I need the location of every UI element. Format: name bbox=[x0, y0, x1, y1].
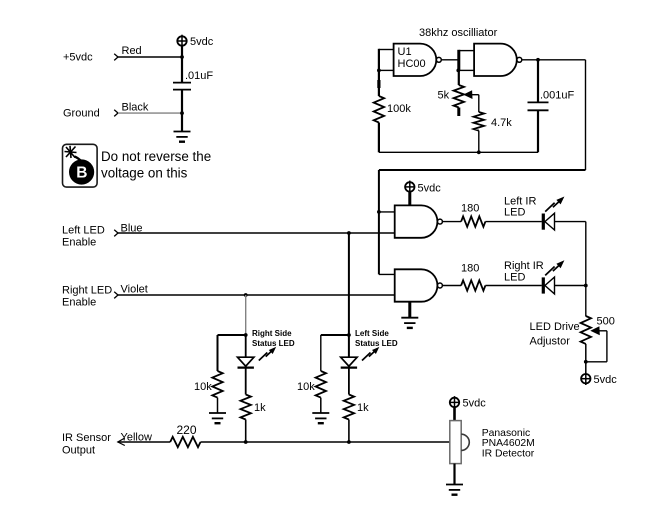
wire Black ground input bbox=[118, 112, 182, 114]
wire oscillator bottom rail bbox=[379, 151, 538, 153]
resistor R3 4.7k bbox=[474, 112, 484, 131]
wire output line to detector bbox=[201, 441, 451, 443]
wire right status branch vertical bbox=[245, 295, 247, 335]
wire U1B top input bbox=[459, 50, 474, 52]
svg-text:38khz oscilliator: 38khz oscilliator bbox=[419, 27, 498, 39]
junction R8/output bbox=[347, 440, 351, 444]
svg-text:B: B bbox=[76, 165, 87, 182]
diode D3 Left Side Status LED bbox=[341, 357, 357, 367]
svg-text:LED Drive: LED Drive bbox=[530, 321, 580, 333]
wire R7 to ground bbox=[320, 398, 322, 413]
capacitor C1 bbox=[173, 83, 191, 90]
svg-text:1k: 1k bbox=[357, 402, 369, 414]
ground GND5 bbox=[446, 485, 463, 495]
diode D4 Right Side Status LED bbox=[238, 357, 254, 367]
ic U2 PNA4602M body bbox=[450, 421, 469, 464]
warning icon bomb bbox=[63, 144, 98, 187]
resistor R8 1k bbox=[344, 395, 354, 420]
wire gate feed vertical bbox=[378, 170, 380, 274]
diode D1 Left IR LED bbox=[543, 213, 554, 230]
svg-text:Ground: Ground bbox=[63, 108, 100, 120]
svg-text:10k: 10k bbox=[194, 381, 212, 393]
svg-text:Blue: Blue bbox=[121, 222, 143, 234]
resistor R4 180 bbox=[461, 216, 485, 226]
wire C2 top lead bbox=[537, 60, 539, 103]
junction left branch/R7 tap bbox=[347, 333, 351, 337]
svg-text:IR Sensor: IR Sensor bbox=[62, 432, 111, 444]
svg-text:PNA4602M: PNA4602M bbox=[482, 438, 535, 449]
wire left branch to R7 bbox=[321, 334, 349, 336]
wire U1B inputs to R2 pot bbox=[458, 70, 460, 85]
svg-text:Left IR: Left IR bbox=[504, 195, 536, 207]
wire P1 to junction to C1 bbox=[181, 46, 183, 83]
svg-text:100k: 100k bbox=[387, 103, 411, 115]
wire R6 wiper loop bbox=[586, 331, 607, 362]
node Ground input port bbox=[114, 110, 118, 117]
svg-text:LED: LED bbox=[504, 207, 525, 219]
node Left LED Enable port bbox=[114, 230, 118, 237]
emission arrows D4 bbox=[259, 347, 276, 361]
junction right branch/R9 tap bbox=[244, 333, 248, 337]
svg-text:Adjustor: Adjustor bbox=[530, 336, 571, 348]
wire U1A top input bbox=[379, 49, 394, 51]
ground GND2 bbox=[401, 318, 418, 328]
svg-text:.001uF: .001uF bbox=[540, 90, 575, 102]
wire D1 to right rail bbox=[555, 221, 586, 223]
wire D3 to R8 bbox=[348, 368, 350, 395]
wire thick lead above R1 bbox=[377, 80, 380, 88]
wire U1D ground lead bbox=[408, 302, 411, 318]
junction feed/U1C bbox=[377, 210, 381, 214]
wire U1C output to R4 bbox=[442, 221, 461, 223]
capacitor C2 bbox=[528, 102, 549, 110]
svg-text:5k: 5k bbox=[438, 90, 450, 102]
wire R2 unconnected stub bbox=[457, 108, 460, 117]
svg-text:+5vdc: +5vdc bbox=[63, 52, 93, 64]
potentiometer R6 500 bbox=[581, 316, 591, 344]
node IR Sensor Output port bbox=[118, 438, 125, 446]
wire Violet enable line bbox=[118, 294, 395, 296]
resistor R7 10k bbox=[316, 371, 326, 398]
ground GND1 bbox=[174, 132, 191, 142]
emission arrows D1 bbox=[545, 197, 564, 212]
junction Blue/left status branch bbox=[347, 231, 351, 235]
svg-text:1k: 1k bbox=[254, 402, 266, 414]
power symbol 5vdc P3 bbox=[581, 372, 590, 385]
resistor R11 220 bbox=[170, 437, 200, 447]
svg-text:IR Detector: IR Detector bbox=[482, 449, 535, 460]
wire R9 to ground bbox=[217, 398, 219, 413]
junction U1B output/C2 bbox=[536, 58, 540, 62]
wire U1D output to R5 bbox=[442, 285, 461, 287]
wire R8 to output line bbox=[348, 420, 350, 443]
svg-text:Status LED: Status LED bbox=[355, 339, 398, 348]
svg-text:5vdc: 5vdc bbox=[418, 182, 442, 194]
wire R9 top lead bbox=[217, 335, 219, 371]
wire R10 to output line bbox=[245, 420, 247, 443]
wire oscillator output to gates bbox=[379, 169, 586, 171]
wire C2 bottom lead bbox=[537, 110, 539, 152]
svg-text:500: 500 bbox=[597, 316, 615, 328]
svg-text:Violet: Violet bbox=[121, 283, 148, 295]
wire R5 to D2 bbox=[485, 285, 541, 287]
svg-text:HC00: HC00 bbox=[398, 58, 426, 70]
junction D2/right rail bbox=[584, 284, 588, 288]
wire U1A input tie vertical bbox=[378, 49, 380, 96]
svg-text:180: 180 bbox=[461, 263, 479, 275]
emission arrows D3 bbox=[362, 347, 379, 361]
resistor R5 180 bbox=[461, 280, 485, 290]
wire Blue enable line bbox=[118, 232, 395, 234]
junction Violet/right status branch bbox=[244, 293, 248, 297]
svg-text:voltage on this: voltage on this bbox=[101, 165, 188, 180]
wire right branch lower vertical bbox=[245, 335, 247, 357]
op-gate U1A NAND HC00 bbox=[394, 44, 437, 76]
wire U1A output to U1B bbox=[441, 59, 459, 61]
svg-text:5vdc: 5vdc bbox=[463, 397, 487, 409]
wire D4 to R10 bbox=[245, 368, 247, 395]
wire Red +5vdc to C1 top bbox=[118, 56, 182, 58]
svg-text:Output: Output bbox=[62, 445, 95, 457]
svg-text:LED: LED bbox=[504, 271, 525, 283]
svg-text:5vdc: 5vdc bbox=[190, 36, 214, 48]
node +5vdc input port bbox=[114, 54, 118, 61]
junction R3/rail bbox=[477, 150, 481, 154]
resistor R10 1k bbox=[241, 395, 251, 420]
ground GND4 bbox=[209, 413, 226, 423]
wire oscillator output right rail bbox=[585, 60, 587, 170]
wire R3 bottom to rail bbox=[478, 131, 480, 153]
wire D2 to right rail bbox=[555, 285, 586, 287]
power symbol 5vdc P1 bbox=[177, 35, 186, 48]
wire R6 bottom to P3 bbox=[585, 344, 587, 374]
wire R1 bottom to rail bbox=[378, 123, 380, 153]
emission arrows D2 bbox=[545, 260, 564, 275]
resistor R1 100k bbox=[374, 96, 384, 123]
wire C1 bottom to ground bbox=[181, 90, 183, 131]
svg-text:Right LED: Right LED bbox=[62, 285, 112, 297]
svg-text:Right Side: Right Side bbox=[252, 329, 292, 338]
diode D2 Right IR LED bbox=[543, 277, 554, 294]
op-gate U1C NAND bbox=[395, 205, 438, 237]
wire left status branch vertical bbox=[348, 233, 350, 357]
svg-text:5vdc: 5vdc bbox=[594, 374, 618, 386]
svg-text:Enable: Enable bbox=[62, 237, 96, 249]
svg-text:Left Side: Left Side bbox=[355, 329, 389, 338]
wire U1B output bbox=[522, 59, 586, 61]
wire U1B input tie bar bbox=[457, 50, 460, 71]
svg-text:10k: 10k bbox=[297, 381, 315, 393]
svg-text:U1: U1 bbox=[398, 46, 412, 58]
svg-text:Red: Red bbox=[122, 45, 142, 57]
wire U1C top input bbox=[379, 211, 395, 213]
junction U1B inputs/R2 bbox=[456, 69, 460, 73]
svg-text:.01uF: .01uF bbox=[185, 70, 213, 82]
svg-text:180: 180 bbox=[461, 203, 479, 215]
op-gate U1D NAND bbox=[395, 269, 438, 301]
junction R6 wiper/bottom bbox=[584, 360, 588, 364]
svg-text:Left LED: Left LED bbox=[62, 224, 105, 236]
wire U1A bottom input bbox=[379, 69, 394, 71]
wire Yellow to R11 bbox=[118, 441, 170, 443]
svg-text:Enable: Enable bbox=[62, 297, 96, 309]
svg-text:220: 220 bbox=[177, 423, 197, 437]
svg-text:Black: Black bbox=[122, 102, 149, 114]
wiper arrow R6 bbox=[590, 326, 607, 335]
wire R2 wiper to R3 bbox=[478, 95, 480, 112]
wiper arrow R2 bbox=[463, 90, 479, 99]
wire U1D top input bbox=[379, 273, 395, 275]
wire right branch to R9 bbox=[218, 334, 246, 336]
wire P4 to U2 bbox=[453, 407, 456, 421]
resistor R9 10k bbox=[212, 371, 222, 398]
svg-text:Right IR: Right IR bbox=[504, 260, 544, 272]
junction R10/output bbox=[244, 440, 248, 444]
wire U1B bottom input bbox=[459, 69, 474, 71]
node Right LED Enable port bbox=[114, 292, 118, 299]
power symbol 5vdc P2 bbox=[405, 181, 414, 194]
svg-text:4.7k: 4.7k bbox=[491, 117, 512, 129]
op-gate U1B NAND bbox=[474, 44, 517, 76]
potentiometer R2 5k bbox=[454, 85, 464, 108]
wire P2 to U1C bbox=[408, 191, 411, 205]
svg-text:Status LED: Status LED bbox=[252, 339, 295, 348]
wire U2 ground lead bbox=[453, 464, 455, 485]
ground GND3 bbox=[312, 413, 329, 423]
wire right LED rail bbox=[585, 222, 587, 317]
wire R4 to D1 bbox=[485, 221, 541, 223]
junction Black/C1 bbox=[180, 111, 184, 115]
wire R7 top lead bbox=[320, 335, 322, 371]
svg-text:Do not reverse the: Do not reverse the bbox=[101, 149, 211, 164]
junction U1A inputs bbox=[377, 69, 381, 73]
power symbol 5vdc P4 bbox=[450, 396, 459, 409]
junction Red/5vdc bbox=[180, 55, 184, 59]
